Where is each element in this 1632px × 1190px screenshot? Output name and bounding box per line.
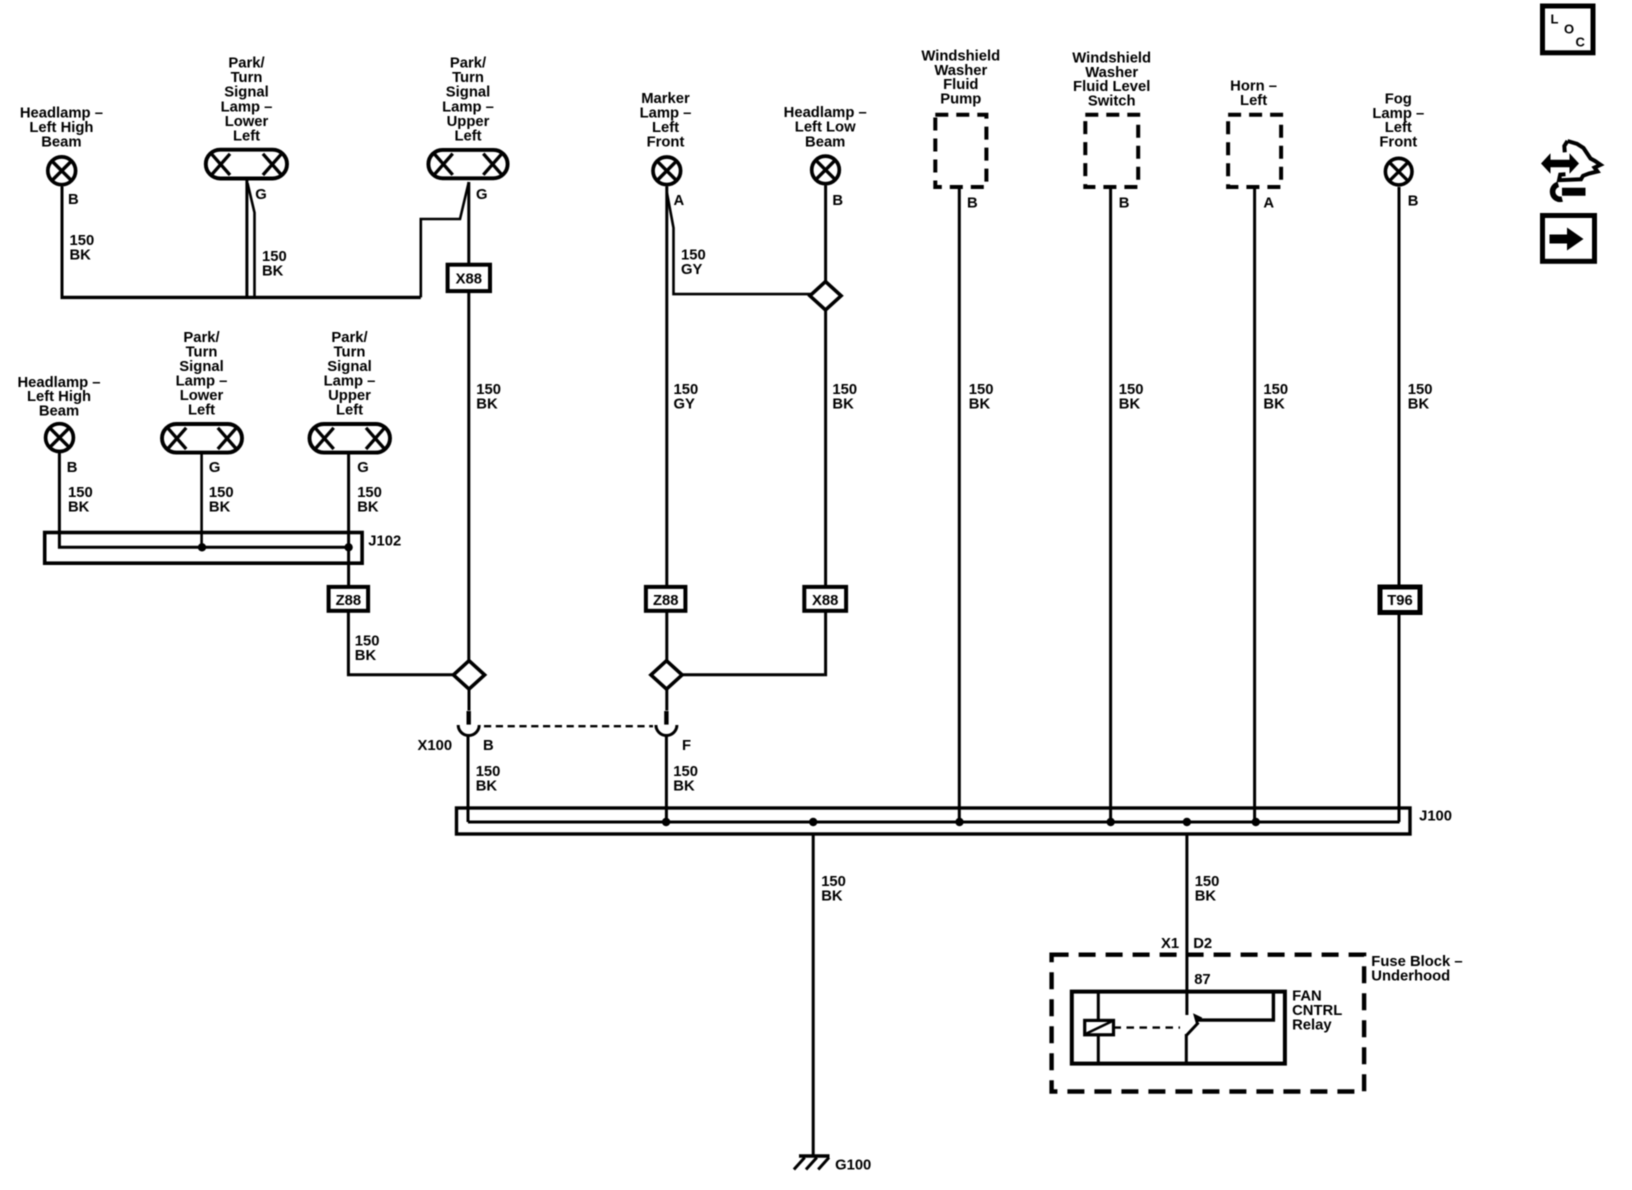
svg-text:Left: Left bbox=[1240, 93, 1267, 109]
svg-text:B: B bbox=[1119, 196, 1130, 212]
pin G: park/turn lower left top bbox=[255, 187, 267, 203]
pin B: headlamp low beam bbox=[832, 193, 843, 209]
wire: Park/Turn Upper Left (row2) down through J102 to Z88 bbox=[347, 455, 350, 589]
svg-text:B: B bbox=[832, 193, 843, 209]
svg-text:Lamp –: Lamp – bbox=[640, 105, 692, 121]
wire: Park/Turn Upper Left (top) branch to left bus bbox=[421, 182, 469, 297]
svg-text:BK: BK bbox=[832, 397, 854, 413]
svg-text:Z88: Z88 bbox=[336, 593, 362, 609]
wire label 150 BK (park/turn lower row2) bbox=[209, 485, 234, 516]
svg-text:Underhood: Underhood bbox=[1371, 969, 1450, 985]
svg-text:Switch: Switch bbox=[1088, 94, 1136, 110]
wire label 150 BK (headlamp row2) bbox=[68, 485, 93, 516]
svg-text:L: L bbox=[1551, 12, 1559, 27]
wire label 150 BK (fan relay feed) bbox=[1195, 874, 1220, 905]
wire label 150 BK (ground run) bbox=[821, 874, 846, 905]
splice diamond right (marker wire / X88-right wire) bbox=[651, 661, 682, 689]
svg-text:G: G bbox=[357, 460, 369, 476]
junction dot J100 (washer pump wire) bbox=[955, 818, 963, 826]
wire: Z88 left down and right to splice bbox=[348, 610, 454, 675]
connector Z88 (left, on row2 Park/Turn wire) bbox=[329, 587, 369, 611]
wire: G100 ground run 150 BK bbox=[812, 833, 815, 1155]
label: Windshield Washer Fluid Level Switch bbox=[1072, 50, 1151, 109]
svg-text:C: C bbox=[1576, 35, 1586, 50]
svg-text:Park/: Park/ bbox=[228, 56, 264, 72]
connector X88 (right, on Headlamp Low Beam wire) bbox=[804, 587, 846, 611]
svg-text:J102: J102 bbox=[368, 534, 401, 550]
svg-text:Turn: Turn bbox=[231, 70, 263, 86]
junction dot J100 (horn wire) bbox=[1252, 818, 1260, 826]
wire label 150 GY (marker stub) bbox=[681, 248, 706, 279]
junction dot J100 (ground run) bbox=[809, 818, 817, 826]
svg-text:G: G bbox=[209, 460, 221, 476]
label: Fog Lamp Left Front bbox=[1372, 91, 1424, 150]
svg-text:A: A bbox=[1263, 196, 1274, 212]
wire: Fan relay feed 150 BK from J100 to pin 87 bbox=[1185, 833, 1188, 1015]
wire: X88-right horizontal to right splice bbox=[682, 673, 824, 676]
junction dot J100 (level switch wire) bbox=[1107, 818, 1115, 826]
pin B: X100 bbox=[483, 738, 494, 754]
svg-text:BK: BK bbox=[262, 263, 284, 279]
wire label 150 BK (headlamp high beam top) bbox=[70, 233, 95, 264]
lamp symbol: Park/Turn Signal Lamp Lower Left (row2) bbox=[162, 424, 242, 453]
LOC reference box (top right) bbox=[1543, 6, 1594, 53]
FAN CNTRL Relay box bbox=[1072, 992, 1285, 1064]
svg-text:B: B bbox=[67, 460, 78, 476]
wire: Headlamp Left Low Beam 150 BK down to splice bbox=[824, 185, 827, 281]
pin F: X100 bbox=[682, 738, 691, 754]
svg-text:BK: BK bbox=[476, 397, 498, 413]
svg-text:X1: X1 bbox=[1161, 936, 1179, 952]
connector X100 pin F symbol bbox=[656, 711, 677, 735]
wire: Park/Turn Lower Left (top) terminal G down (left branch) bbox=[245, 180, 248, 297]
svg-text:Left: Left bbox=[336, 402, 363, 418]
svg-text:B: B bbox=[483, 738, 494, 754]
svg-text:Left: Left bbox=[454, 129, 481, 145]
wire: Headlamp Left High Beam (row2) down into J102 and bus line bbox=[59, 453, 348, 547]
label: Marker Lamp Left Front bbox=[640, 91, 692, 151]
svg-text:B: B bbox=[1408, 194, 1419, 210]
dashed link: X100 connector B to F bbox=[484, 725, 653, 727]
lamp symbol: Park/Turn Signal Lamp Upper Left (row2) bbox=[310, 424, 391, 453]
component box: Horn Left (dashed) bbox=[1228, 115, 1281, 187]
svg-text:Lamp –: Lamp – bbox=[442, 99, 494, 115]
svg-text:GY: GY bbox=[681, 262, 703, 278]
label: Park/Turn Signal Lamp Upper Left (top) bbox=[442, 56, 494, 145]
lamp symbol: Headlamp Left High Beam (top) bbox=[48, 157, 76, 185]
service/repair icon: double arrow, car outline, wrench bbox=[1541, 141, 1601, 199]
junction dot in J102 (Park/Turn Lower Left row2) bbox=[198, 543, 206, 551]
wire label 150 BK (level switch) bbox=[1119, 382, 1144, 413]
svg-text:X88: X88 bbox=[812, 593, 838, 609]
svg-text:BK: BK bbox=[969, 397, 991, 413]
wire label 150 BK (Z88 left wire) bbox=[355, 633, 380, 664]
wire: Marker Lamp 150 GY stub to splice on low-beam wire bbox=[667, 193, 813, 294]
label: Headlamp Left High Beam (row2) bbox=[17, 375, 100, 420]
lamp symbol: Marker Lamp Left Front bbox=[653, 157, 681, 185]
wire label 150 BK (fog lamp) bbox=[1408, 382, 1433, 413]
junction dot in J102 (Park/Turn Upper Left row2) bbox=[344, 543, 352, 551]
svg-text:Left Low: Left Low bbox=[795, 120, 856, 136]
wire: Windshield Washer Fluid Pump 150 BK down to J100 bbox=[958, 187, 961, 822]
wire: Park/Turn Upper Left (top) 150 BK down through X88 to splice bbox=[467, 182, 470, 662]
wire: left splice down to X100 pin B bbox=[468, 688, 471, 711]
svg-text:Lamp –: Lamp – bbox=[221, 99, 273, 115]
node G100 label bbox=[835, 1157, 871, 1173]
svg-text:Beam: Beam bbox=[41, 134, 81, 150]
forward arrow box bbox=[1543, 216, 1595, 262]
svg-text:BK: BK bbox=[1195, 889, 1217, 905]
wire: top-left ground bus horizontal 150 BK bbox=[61, 296, 421, 299]
lamp symbol: Headlamp Left Low Beam bbox=[812, 156, 840, 184]
svg-text:BK: BK bbox=[1408, 397, 1430, 413]
node X1 label bbox=[1161, 936, 1179, 952]
wire: Windshield Washer Fluid Level Switch 150 BK down to J100 bbox=[1109, 187, 1112, 822]
svg-text:GY: GY bbox=[674, 397, 696, 413]
svg-text:BK: BK bbox=[355, 648, 377, 664]
svg-text:J100: J100 bbox=[1419, 809, 1452, 825]
svg-text:Lower: Lower bbox=[225, 114, 269, 130]
svg-text:A: A bbox=[674, 193, 685, 209]
svg-text:B: B bbox=[68, 192, 79, 208]
wire: Park/Turn Lower Left (top) 150 BK branch (diagonal) bbox=[248, 183, 255, 297]
connector T96 (on Fog Lamp wire) bbox=[1380, 587, 1420, 613]
pin D2 label bbox=[1193, 936, 1212, 952]
svg-text:BK: BK bbox=[68, 500, 90, 516]
svg-text:Front: Front bbox=[1379, 135, 1417, 151]
svg-text:BK: BK bbox=[70, 248, 92, 264]
svg-text:Turn: Turn bbox=[452, 70, 484, 86]
wire label 150 BK (park/turn lower left top) bbox=[262, 249, 287, 279]
pin 87 label bbox=[1194, 972, 1210, 988]
svg-text:D2: D2 bbox=[1193, 936, 1212, 952]
svg-text:BK: BK bbox=[357, 500, 379, 516]
component box: Windshield Washer Fluid Level Switch (dashed) bbox=[1085, 115, 1138, 187]
wire label 150 BK (horn) bbox=[1263, 382, 1288, 413]
label: Park/Turn Signal Lamp Upper Left (row2) bbox=[324, 330, 376, 419]
connector Z88 (right, on Marker Lamp wire) bbox=[646, 587, 686, 611]
wire: Headlamp Left High Beam (top) terminal B down bbox=[61, 187, 64, 298]
relay switch arm with arrow bbox=[1186, 992, 1273, 1064]
svg-text:Left: Left bbox=[233, 129, 260, 145]
label: Windshield Washer Fluid Pump bbox=[921, 48, 1000, 107]
pin B: level switch bbox=[1119, 196, 1130, 212]
svg-text:Park/: Park/ bbox=[450, 56, 486, 72]
label: Headlamp Left High Beam (top) bbox=[20, 106, 103, 151]
svg-text:BK: BK bbox=[821, 889, 843, 905]
relay actuation dashed link bbox=[1114, 1026, 1181, 1028]
svg-text:G: G bbox=[255, 187, 267, 203]
relay coil leads bbox=[1097, 992, 1100, 1064]
wire: Park/Turn Lower Left (row2) down to J102 bus bbox=[200, 455, 203, 548]
pin G: park/turn upper left row2 bbox=[357, 460, 369, 476]
pin B: fog lamp bbox=[1408, 194, 1419, 210]
component box: Windshield Washer Fluid Pump (dashed) bbox=[935, 115, 986, 187]
svg-text:BK: BK bbox=[476, 778, 498, 794]
wire: Horn Left 150 BK down to J100 bbox=[1253, 187, 1256, 822]
splice J102 box bbox=[45, 533, 402, 564]
wire label 150 BK (washer pump) bbox=[969, 382, 994, 413]
lamp symbol: Fog Lamp Left Front bbox=[1385, 158, 1412, 185]
svg-text:Front: Front bbox=[647, 134, 685, 150]
label: Horn Left bbox=[1230, 79, 1277, 110]
label: Park/Turn Signal Lamp Lower Left (row2) bbox=[176, 330, 228, 419]
svg-text:X100: X100 bbox=[418, 738, 453, 754]
wire label 150 GY (marker main) bbox=[674, 382, 699, 413]
pin B: washer pump bbox=[967, 196, 978, 212]
svg-text:BK: BK bbox=[1119, 397, 1141, 413]
lamp symbol: Headlamp Left High Beam (row2) bbox=[46, 424, 74, 452]
svg-text:Signal: Signal bbox=[446, 85, 490, 101]
svg-text:T96: T96 bbox=[1387, 593, 1413, 609]
label: Headlamp Left Low Beam bbox=[784, 105, 867, 150]
wire: Marker Lamp 150 GY main run down through Z88 to splice and J100 bbox=[665, 187, 668, 823]
svg-text:87: 87 bbox=[1194, 972, 1210, 988]
svg-text:Signal: Signal bbox=[224, 85, 268, 101]
label: Park/Turn Signal Lamp Lower Left (top) bbox=[221, 56, 273, 145]
wire label 150 BK (X100 B to J100) bbox=[476, 764, 501, 795]
svg-text:Pump: Pump bbox=[940, 92, 981, 108]
svg-text:X88: X88 bbox=[456, 271, 482, 287]
svg-text:Upper: Upper bbox=[447, 114, 490, 130]
wire label 150 BK (X100 F to J100) bbox=[673, 764, 698, 795]
splice diamond (low beam / marker stub) bbox=[810, 282, 841, 310]
svg-text:G: G bbox=[476, 187, 488, 203]
junction dot J100 (fan relay feed) bbox=[1183, 818, 1191, 826]
connector X88 (on Park/Turn Upper Left top wire) bbox=[448, 265, 490, 291]
ground G100 symbol bbox=[794, 1156, 830, 1170]
pin B: headlamp high beam top bbox=[68, 192, 79, 208]
node X100 label bbox=[418, 738, 453, 754]
pin A: horn bbox=[1263, 196, 1274, 212]
junction dot J100 (marker wire) bbox=[662, 818, 670, 826]
relay coil element bbox=[1085, 1020, 1114, 1034]
wire label 150 BK (park/turn upper left / X88 wire) bbox=[476, 382, 501, 413]
svg-text:Left: Left bbox=[188, 402, 215, 418]
svg-text:Beam: Beam bbox=[39, 404, 79, 420]
svg-text:Z88: Z88 bbox=[653, 593, 679, 609]
svg-text:BK: BK bbox=[673, 778, 695, 794]
splice diamond left (X88 wire / Z88 wire) bbox=[453, 661, 484, 689]
svg-text:BK: BK bbox=[209, 500, 231, 516]
label: FAN CNTRL Relay bbox=[1292, 989, 1342, 1034]
wire label 150 BK (low beam) bbox=[832, 382, 857, 413]
Fuse Block Underhood dashed outline bbox=[1052, 955, 1365, 1092]
lamp symbol: Park/Turn Signal Lamp Lower Left (top) bbox=[206, 150, 287, 179]
pin G: park/turn upper left top bbox=[476, 187, 488, 203]
wire: X100 B 150 BK down to J100 and inner bus line bbox=[468, 737, 1400, 823]
svg-text:F: F bbox=[682, 738, 691, 754]
splice J100 box bbox=[457, 808, 1453, 834]
label: Fuse Block Underhood bbox=[1371, 954, 1462, 985]
pin A: marker lamp bbox=[674, 193, 685, 209]
svg-text:B: B bbox=[967, 196, 978, 212]
svg-text:Beam: Beam bbox=[805, 134, 845, 150]
connector X100 pin B symbol bbox=[458, 711, 479, 736]
pin G: park/turn lower left row2 bbox=[209, 460, 221, 476]
svg-text:G100: G100 bbox=[835, 1157, 871, 1173]
wire: Fog Lamp 150 BK down through T96 to J100 bbox=[1398, 187, 1401, 822]
pin B: headlamp high beam row2 bbox=[67, 460, 78, 476]
svg-text:BK: BK bbox=[1263, 397, 1285, 413]
svg-text:Headlamp –: Headlamp – bbox=[784, 105, 867, 121]
svg-text:Relay: Relay bbox=[1292, 1018, 1332, 1034]
wire label 150 BK (park/turn upper row2) bbox=[357, 485, 382, 516]
lamp symbol: Park/Turn Signal Lamp Upper Left (top) bbox=[428, 150, 507, 178]
wire: low-beam 150 BK from splice down through X88 right bbox=[824, 310, 827, 676]
svg-text:O: O bbox=[1564, 22, 1574, 37]
